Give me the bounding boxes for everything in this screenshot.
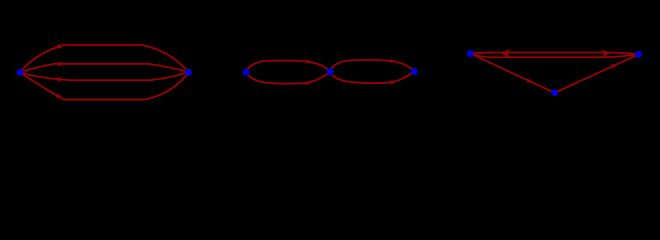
edge m1 lower	[246, 72, 330, 84]
node v2	[185, 69, 192, 76]
edge t2 (B to A, lower)	[470, 54, 638, 58]
node w1	[243, 69, 250, 76]
arrowhead on m1 lower	[305, 81, 311, 86]
edge e1 (v2 to v1)	[20, 45, 189, 72]
arrowhead on e4	[54, 94, 61, 100]
arrowhead on m1 upper	[305, 59, 311, 64]
arrowhead on e3	[55, 77, 62, 83]
arrowhead on t2 (points left)	[502, 48, 511, 58]
arrowhead on t3	[526, 78, 533, 83]
edge m2 lower	[330, 71, 414, 83]
edge e4 (v2 to v1)	[20, 72, 189, 99]
arrowhead on t1 (points right)	[601, 49, 610, 57]
arrowhead on t4	[610, 64, 617, 69]
arrowhead on m2 upper	[389, 58, 395, 63]
edge t4 (C to B)	[555, 54, 639, 92]
node w2	[327, 68, 334, 75]
edge t1 (A to B, upper)	[470, 53, 638, 55]
arrowhead on e1	[55, 43, 62, 48]
arrowhead on e2	[55, 61, 62, 67]
node v1	[17, 69, 24, 76]
edge e2 (v2 to v1)	[20, 64, 189, 72]
edge m2 upper	[330, 60, 414, 72]
edge e3 (v2 to v1)	[20, 72, 189, 80]
node u2 top-right	[635, 51, 642, 58]
edge t3 (A to C)	[470, 54, 554, 93]
node u1 top-left	[467, 50, 474, 57]
node w3	[411, 68, 418, 75]
node u3 bottom	[551, 89, 558, 96]
edge m1 upper	[246, 60, 330, 72]
arrowhead on m2 lower	[389, 80, 395, 85]
